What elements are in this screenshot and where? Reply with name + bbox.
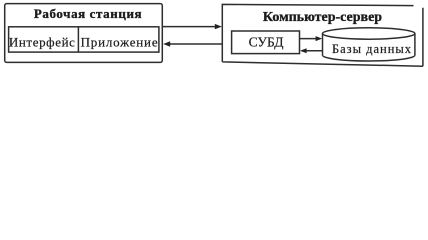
arrowhead into workstation box — [163, 41, 170, 46]
database cylinder top ellipse — [323, 28, 415, 39]
computer-server box (slightly skewed scan) — [222, 4, 423, 66]
svg-text:Приложение: Приложение — [81, 34, 159, 49]
arrow database to dbms (bottom) — [305, 50, 322, 52]
arrow dbms to database (top) — [300, 38, 318, 40]
database cylinder bottom arc — [323, 55, 415, 61]
arrowhead into database — [316, 36, 323, 41]
svg-text:Базы данных: Базы данных — [332, 42, 412, 56]
workstation outer box — [5, 4, 163, 63]
arrow server to workstation (bottom) — [169, 43, 223, 45]
arrowhead into dbms — [300, 48, 307, 53]
interface/application inner box — [9, 27, 159, 52]
arrow workstation to server (top) — [163, 26, 217, 28]
svg-text:Компьютер-сервер: Компьютер-сервер — [263, 10, 382, 25]
svg-text:Интерфейс: Интерфейс — [9, 34, 76, 49]
svg-text:Рабочая станция: Рабочая станция — [34, 6, 142, 21]
arrowhead into server box — [215, 24, 222, 29]
database cylinder sides — [322, 34, 324, 56]
divider between interface and application — [77, 27, 79, 52]
dbms box — [232, 31, 300, 54]
svg-text:СУБД: СУБД — [249, 34, 284, 49]
